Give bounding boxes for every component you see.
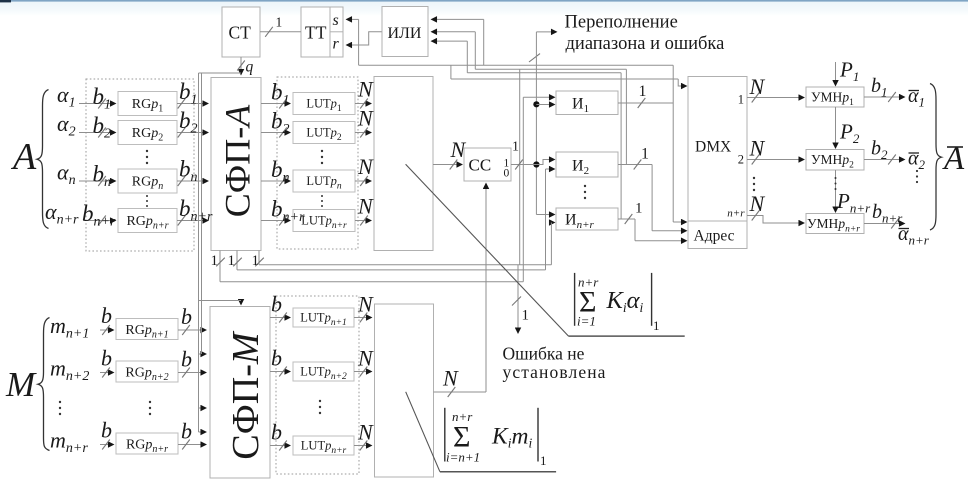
svg-text:1: 1 [540, 453, 547, 468]
svg-text:b: b [181, 347, 192, 372]
svg-text:1: 1 [641, 146, 649, 163]
svg-text:i=1: i=1 [577, 314, 596, 329]
svg-text:N: N [357, 106, 374, 131]
svg-text:ИЛИ: ИЛИ [388, 25, 422, 42]
svg-text:1: 1 [211, 253, 219, 269]
svg-text:N: N [749, 191, 766, 216]
svg-text:1: 1 [635, 201, 643, 217]
svg-text:Адрес: Адрес [694, 228, 735, 245]
svg-text:1: 1 [639, 83, 647, 100]
svg-text:b: b [181, 304, 192, 329]
svg-text:r: r [333, 36, 340, 53]
svg-text:СФП-М: СФП-М [225, 330, 267, 459]
svg-text:N: N [357, 292, 374, 317]
svg-text:A: A [10, 136, 37, 178]
svg-text:1: 1 [252, 253, 260, 269]
svg-text:диапазона и ошибка: диапазона и ошибка [566, 34, 725, 54]
svg-text:1: 1 [653, 318, 660, 333]
svg-text:М: М [5, 365, 37, 404]
svg-text:b: b [271, 292, 282, 317]
svg-text:1: 1 [522, 308, 530, 324]
svg-text:установлена: установлена [503, 362, 607, 382]
svg-text:N: N [749, 74, 766, 99]
svg-text:b: b [181, 419, 192, 444]
svg-text:b: b [101, 346, 112, 371]
svg-text:N: N [442, 366, 459, 391]
svg-text:N: N [357, 194, 374, 219]
svg-text:1: 1 [228, 253, 236, 269]
svg-text:N: N [357, 154, 374, 179]
svg-text:1: 1 [276, 15, 283, 30]
svg-text:N: N [357, 346, 374, 371]
svg-text:s: s [333, 12, 339, 29]
svg-text:N: N [749, 136, 766, 161]
svg-text:Переполнение: Переполнение [565, 13, 678, 33]
svg-text:b: b [101, 303, 112, 328]
svg-text:n+r: n+r [727, 208, 745, 220]
svg-text:СС: СС [469, 156, 492, 175]
svg-text:0: 0 [504, 168, 510, 180]
svg-text:1: 1 [512, 140, 519, 155]
svg-text:i=n+1: i=n+1 [446, 450, 480, 465]
svg-text:q: q [246, 59, 254, 76]
svg-text:N: N [357, 77, 374, 102]
svg-text:N: N [357, 420, 374, 445]
svg-text:b: b [101, 418, 112, 443]
svg-text:b: b [271, 346, 282, 371]
svg-text:b: b [271, 420, 282, 445]
svg-text:СТ: СТ [229, 23, 252, 43]
svg-text:Ошибка не: Ошибка не [503, 344, 585, 364]
svg-text:ТТ: ТТ [305, 23, 327, 43]
svg-text:Kimi: Kimi [491, 424, 532, 451]
svg-text:DMX: DMX [695, 139, 731, 156]
svg-text:СФП-А: СФП-А [218, 104, 258, 217]
svg-text:1: 1 [738, 93, 744, 107]
svg-text:2: 2 [738, 153, 744, 167]
svg-text:N: N [450, 137, 467, 162]
